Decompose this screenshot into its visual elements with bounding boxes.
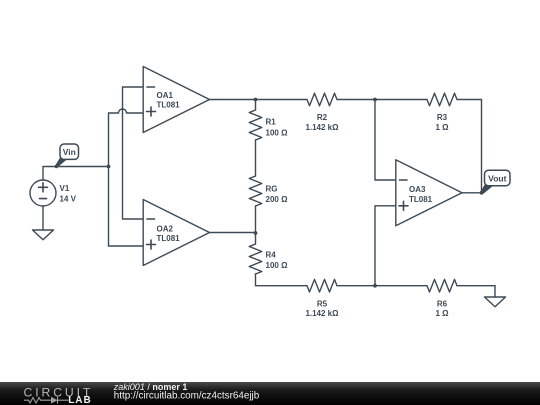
svg-text:http://circuitlab.com/cz4ctsr6: http://circuitlab.com/cz4ctsr64ejjb	[114, 391, 260, 402]
svg-text:TL081: TL081	[409, 195, 433, 204]
svg-text:TL081: TL081	[157, 101, 181, 110]
svg-text:R6: R6	[437, 299, 448, 308]
svg-text:1.142 kΩ: 1.142 kΩ	[305, 309, 339, 318]
svg-text:1.142 kΩ: 1.142 kΩ	[305, 123, 339, 132]
svg-text:Vin: Vin	[63, 147, 76, 157]
svg-text:R4: R4	[266, 251, 277, 260]
svg-text:TL081: TL081	[157, 234, 181, 243]
svg-text:200 Ω: 200 Ω	[266, 195, 289, 204]
svg-text:OA2: OA2	[157, 224, 174, 233]
svg-text:R2: R2	[317, 113, 328, 122]
svg-text:OA3: OA3	[409, 185, 426, 194]
svg-text:LAB: LAB	[68, 395, 92, 405]
svg-text:R3: R3	[437, 113, 448, 122]
svg-text:V1: V1	[60, 184, 70, 193]
svg-text:14 V: 14 V	[60, 195, 77, 204]
svg-text:100 Ω: 100 Ω	[266, 261, 289, 270]
svg-text:100 Ω: 100 Ω	[266, 128, 289, 137]
svg-text:RG: RG	[266, 185, 278, 194]
svg-text:1 Ω: 1 Ω	[435, 123, 449, 132]
svg-text:OA1: OA1	[157, 91, 174, 100]
svg-text:R5: R5	[317, 299, 328, 308]
svg-text:R1: R1	[266, 118, 277, 127]
svg-text:Vout: Vout	[488, 173, 506, 183]
svg-text:1 Ω: 1 Ω	[435, 309, 449, 318]
